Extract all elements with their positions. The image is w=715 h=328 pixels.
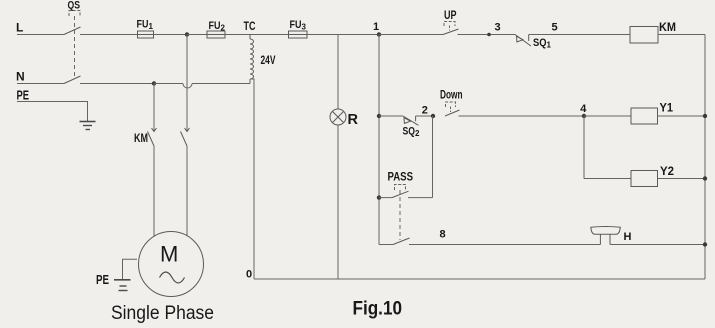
svg-text:KM: KM — [134, 131, 148, 145]
wire N line left — [17, 83, 64, 85]
coil Y2 — [631, 171, 658, 187]
pushbutton Down blade — [445, 110, 460, 116]
fuse FU2 — [207, 31, 225, 38]
ground motor PE bar3 — [119, 290, 128, 292]
junction rail Y1 dot — [703, 114, 707, 118]
wire 0 rail — [254, 278, 705, 280]
junction blob near node 3 — [487, 33, 491, 37]
wire FU3 to node 1 — [307, 34, 379, 36]
wire node 1 to UP — [379, 34, 444, 36]
lamp R circle — [330, 109, 346, 125]
svg-text:0: 0 — [246, 269, 252, 281]
wire motor PE lead — [123, 259, 138, 279]
svg-text:Y2: Y2 — [660, 166, 674, 178]
pushbutton PASS blade1 — [392, 191, 409, 197]
ground PE input bar3 — [86, 129, 91, 131]
pushbutton UP bracket — [444, 22, 455, 27]
wire PASS to riser — [408, 197, 433, 199]
svg-text:L: L — [16, 21, 23, 35]
junction node 1 dot — [377, 32, 381, 36]
svg-text:4: 4 — [580, 103, 587, 115]
svg-text:24V: 24V — [261, 55, 276, 67]
wire L line left — [17, 34, 64, 36]
svg-text:3: 3 — [495, 22, 501, 34]
svg-text:Fig.10: Fig.10 — [353, 299, 403, 320]
contactor KM contact1 chevron — [152, 128, 157, 132]
ground motor PE bar2 — [120, 285, 127, 287]
pushbutton PASS blade2 — [393, 238, 410, 245]
coil Y1 — [631, 108, 658, 124]
buzzer H leg2 — [609, 234, 611, 244]
wire Down to node 4 — [459, 115, 585, 117]
svg-text:N: N — [16, 70, 25, 84]
svg-text:M: M — [160, 242, 178, 267]
wire hop to TC bottom — [192, 83, 250, 85]
lamp R cross stroke2 — [332, 111, 343, 122]
svg-text:5: 5 — [552, 22, 558, 34]
svg-text:QS: QS — [68, 0, 81, 12]
fuse FU1 — [138, 31, 154, 38]
wire FU1 to node A — [154, 34, 188, 36]
wire TC secondary drop — [250, 79, 254, 279]
switch QS bracket — [69, 11, 80, 17]
wire right rail — [704, 35, 706, 280]
wire Y2 to rail — [658, 178, 706, 180]
wire SQ1 to KM coil — [529, 34, 630, 36]
pushbutton UP stem — [449, 26, 451, 31]
switch QS blade (L pole) — [64, 27, 81, 35]
svg-text:KM: KM — [659, 20, 676, 34]
wire PASS2 row left — [379, 244, 393, 246]
transformer TC winding — [250, 35, 254, 80]
svg-text:H: H — [624, 231, 632, 243]
wire PE line — [17, 102, 88, 122]
wire motor lead2 — [186, 146, 188, 236]
pushbutton PASS linkage — [399, 190, 401, 240]
lamp R cross stroke1 — [332, 111, 343, 122]
junction rail H dot — [703, 242, 707, 246]
wire TC bottom stub — [249, 79, 251, 84]
wire L line QS to FU1 — [80, 34, 138, 36]
wire FU2 to FU3 — [225, 34, 289, 36]
switch QS linkage — [74, 16, 76, 77]
svg-text:TC: TC — [244, 21, 256, 33]
svg-text:R: R — [348, 112, 359, 128]
limit switch SQ2 tick — [415, 116, 417, 121]
junction rail Y2 dot — [703, 176, 707, 180]
junction node R dot — [377, 114, 381, 118]
wire KM coil to right rail — [658, 34, 705, 36]
wire buzzer to rail — [610, 244, 705, 246]
coil KM — [630, 27, 658, 44]
svg-text:Y1: Y1 — [660, 103, 674, 115]
svg-text:2: 2 — [422, 105, 428, 117]
ground PE input bar1 — [80, 121, 96, 123]
switch QS blade (N pole) — [64, 76, 81, 84]
wire N line QS to motor branch — [80, 83, 154, 85]
wire KM contact2 feed — [186, 35, 188, 132]
contactor KM contact1 blade — [148, 132, 155, 147]
wire control left rail — [378, 35, 380, 245]
pushbutton PASS bracket — [395, 185, 406, 191]
wire node 4 down — [583, 116, 585, 179]
junction N motor-branch dot — [152, 81, 156, 85]
svg-text:1: 1 — [373, 21, 379, 33]
wire PASS2 to buzzer — [409, 244, 600, 246]
wire node R to SQ2 — [379, 115, 403, 117]
wire hop over branch — [183, 84, 192, 89]
buzzer H bowl — [591, 227, 621, 235]
limit switch SQ1 wedge — [517, 36, 524, 42]
wire UP to SQ1 — [458, 34, 516, 36]
junction node 4 dot — [582, 114, 586, 118]
wire riser to node 2 — [432, 116, 434, 198]
contactor KM contact2 blade — [181, 132, 188, 147]
motor sine symbol — [160, 272, 185, 283]
svg-text:PE: PE — [17, 89, 30, 103]
junction node 2 dot — [431, 114, 435, 118]
wire N to hop — [154, 83, 183, 85]
limit switch SQ1 blade — [515, 35, 531, 47]
svg-text:Down: Down — [440, 88, 463, 102]
pushbutton Down stem — [450, 107, 452, 113]
svg-text:Single Phase: Single Phase — [111, 303, 214, 324]
wire node A to FU2 — [187, 34, 207, 36]
limit switch SQ2 wedge — [404, 118, 411, 124]
junction node PASS dot — [377, 195, 381, 199]
ground PE input bar2 — [83, 125, 92, 127]
pushbutton UP blade — [443, 29, 459, 35]
svg-text:PASS: PASS — [388, 172, 414, 184]
svg-text:PE: PE — [96, 273, 109, 287]
wire KM contact1 feed — [153, 84, 155, 132]
motor M circle — [139, 232, 204, 297]
pushbutton Down bracket — [446, 102, 456, 107]
fuse FU3 — [289, 31, 308, 38]
wire node 4 to Y1 — [584, 115, 631, 117]
limit switch SQ2 blade — [403, 116, 419, 125]
contactor KM contact2 chevron — [185, 128, 190, 132]
wire lamp branch top — [337, 35, 339, 110]
buzzer H leg1 — [599, 234, 601, 244]
wire motor lead1 — [153, 146, 155, 237]
svg-text:UP: UP — [444, 8, 457, 22]
limit switch SQ1 tick — [528, 35, 530, 42]
ground motor PE bar1 — [114, 279, 131, 281]
wire to Y2 — [584, 178, 631, 180]
wire node to PASS — [379, 197, 392, 199]
wire lamp branch bottom — [337, 125, 339, 279]
wire Y1 to rail — [658, 115, 706, 117]
junction node A dot — [185, 32, 189, 36]
wire SQ2 to node 2 — [416, 115, 433, 117]
svg-text:8: 8 — [440, 229, 446, 241]
